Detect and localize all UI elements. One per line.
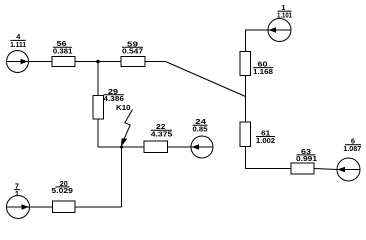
svg-text:1.111: 1.111 [10, 40, 26, 49]
svg-text:1.002: 1.002 [256, 136, 275, 145]
generator source 4 [7, 51, 29, 73]
label: branch 1 value 1.101 [277, 3, 292, 19]
label: resistor 63 value 0.991 [296, 147, 317, 163]
resistor 22 [144, 141, 168, 153]
svg-text:0.85: 0.85 [193, 125, 208, 134]
wire bus top corner to source 1 [246, 30, 268, 52]
node fault junction [120, 146, 123, 149]
label: resistor 61 value 1.002 [256, 129, 275, 145]
fault lightning arrow K10 [121, 110, 133, 148]
resistor 20 [53, 201, 76, 213]
label: branch 4 value 1.111 [10, 32, 26, 49]
wire bus bottom corner to R63 [246, 147, 292, 169]
generator source 6 [337, 158, 360, 181]
node junction top [96, 60, 100, 64]
svg-text:1: 1 [15, 189, 19, 198]
svg-text:1.168: 1.168 [253, 67, 273, 76]
wire source4 to R56 [29, 61, 53, 63]
wire diagonal to right bus [166, 62, 246, 97]
svg-text:K10: K10 [116, 103, 131, 112]
wire source 7 to R20 [30, 206, 53, 208]
svg-text:1.101: 1.101 [277, 11, 292, 20]
generator source 24 [191, 136, 213, 158]
label: branch 7 value 1 [14, 181, 20, 197]
label: branch 6 value 1.087 [343, 137, 361, 153]
wire bottom row R20 to riser [75, 206, 122, 208]
resistor 56 [52, 57, 75, 67]
wire junction down to R29 [97, 62, 99, 96]
svg-text:0.381: 0.381 [53, 47, 73, 56]
svg-text:0.991: 0.991 [296, 154, 317, 163]
label: resistor 29 value 4.386 [103, 87, 124, 103]
generator source 1 [268, 19, 291, 42]
generator source 7 [7, 196, 30, 219]
wire R29 down to corner [98, 119, 144, 147]
label: branch 24 value 0.85 [193, 117, 208, 133]
svg-text:1.087: 1.087 [343, 144, 361, 153]
wire fault junction down to bottom row [121, 147, 123, 207]
label: resistor 22 value 4.375 [151, 122, 173, 138]
label: resistor 56 value 0.381 [53, 39, 73, 55]
resistor 61 [240, 122, 251, 147]
svg-text:0.547: 0.547 [122, 47, 143, 56]
label: resistor 20 value 5.029 [51, 179, 73, 195]
svg-text:4.386: 4.386 [103, 94, 124, 103]
wire R22 to source 24 [168, 146, 192, 148]
wire bus R60 to R61 [245, 76, 247, 123]
wire R63 to source 6 [314, 169, 337, 170]
resistor 29 [93, 96, 104, 120]
svg-text:4.375: 4.375 [151, 130, 173, 139]
resistor 60 [240, 52, 251, 76]
resistor 63 [291, 163, 314, 174]
wire R59 right stub [145, 61, 166, 63]
svg-text:5.029: 5.029 [51, 186, 73, 195]
label: resistor 59 value 0.547 [122, 39, 143, 55]
wire R56 to R59 [75, 61, 121, 63]
label: resistor 60 value 1.168 [253, 60, 273, 76]
resistor 59 [121, 57, 145, 67]
